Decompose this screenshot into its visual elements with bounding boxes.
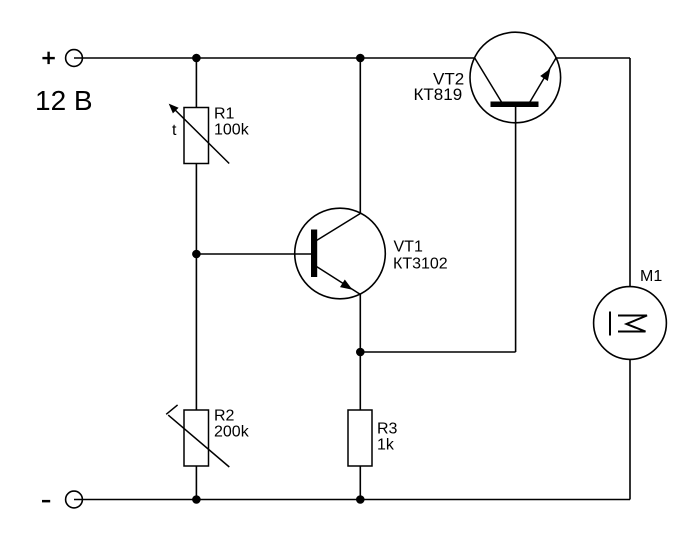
wire VT2 base vertical [515, 107, 517, 352]
motor M1 letter M [618, 316, 647, 332]
node junction divider base [192, 250, 201, 259]
resistor R1 body [184, 108, 209, 164]
svg-text:R3: R3 [377, 421, 398, 438]
wire base VT1 [196, 253, 312, 255]
transistor VT1 base bar [311, 230, 317, 278]
wire right upper [629, 58, 631, 287]
transistor VT2 base bar [491, 102, 539, 108]
resistor R3 body [348, 410, 372, 466]
transistor VT2 circle [470, 32, 561, 123]
svg-text:R2: R2 [214, 408, 235, 425]
node junction R1 top [192, 54, 201, 63]
node junction VT1 collector top [356, 54, 365, 63]
wire R1 top [195, 58, 197, 108]
terminal plus [66, 50, 83, 67]
wire VT1 emitter [359, 294, 361, 352]
trimmer stroke R2 [166, 405, 229, 467]
svg-text:200k: 200k [214, 424, 250, 441]
wire top left [74, 57, 475, 59]
svg-text:100k: 100k [214, 122, 250, 139]
wire right lower [629, 359, 631, 499]
svg-text:КТ3102: КТ3102 [393, 255, 448, 272]
resistor R2 body [184, 410, 209, 466]
motor M1 brush bar [609, 312, 611, 336]
transistor VT2 emitter stroke [530, 58, 556, 102]
minus sign [42, 500, 50, 503]
node junction emitter R3 [356, 348, 365, 357]
wire top right [556, 57, 630, 59]
terminal minus [66, 491, 83, 508]
transistor VT2 collector stroke [475, 58, 502, 102]
node junction bottom middle [356, 495, 365, 504]
svg-text:1k: 1k [377, 437, 395, 454]
wire R2 top [195, 254, 197, 410]
transistor VT1 collector stroke [317, 214, 361, 241]
motor M1 circle [594, 287, 667, 360]
svg-text:R1: R1 [214, 106, 235, 123]
wire bottom [74, 499, 630, 501]
wire R1 bottom [195, 164, 197, 255]
wire R2 bottom [195, 466, 197, 500]
wire VT1 collector [359, 58, 361, 214]
node junction bottom left [192, 495, 201, 504]
wire emitter to VT2 base horizontal [360, 351, 515, 353]
transistor VT1 circle [295, 208, 386, 299]
transistor VT1 emitter stroke [317, 267, 361, 295]
svg-text:12 В: 12 В [35, 85, 93, 116]
wire R3 top [359, 352, 361, 410]
svg-text:VT1: VT1 [394, 239, 423, 256]
plus sign [42, 52, 54, 64]
wire R3 bottom [359, 466, 361, 500]
thermistor arrow R1 [169, 104, 230, 164]
svg-text:M1: M1 [640, 268, 662, 285]
svg-text:КТ819: КТ819 [414, 85, 463, 104]
svg-text:t: t [172, 122, 177, 139]
